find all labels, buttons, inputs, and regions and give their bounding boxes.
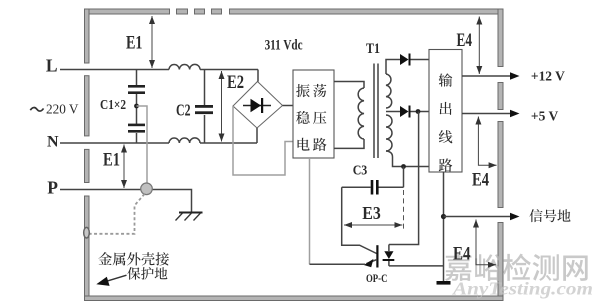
svg-text:E1: E1 bbox=[126, 32, 143, 53]
svg-text:N: N bbox=[47, 134, 59, 151]
wire box to primary top bbox=[334, 82, 364, 89]
label 保护地 bbox=[127, 267, 140, 280]
bridge rectifier diamond bbox=[233, 82, 283, 129]
shield left segment 2 bbox=[85, 76, 90, 136]
wire secondary bottom bbox=[386, 151, 429, 167]
box 输出线路 bbox=[429, 50, 462, 173]
watermark 嘉峪检测网 bbox=[445, 254, 588, 281]
svg-text:E3: E3 bbox=[362, 203, 381, 223]
wire N line bbox=[60, 142, 257, 144]
dimension arrow E4 middle bbox=[478, 117, 496, 166]
svg-text:T1: T1 bbox=[366, 41, 380, 57]
wire node to C3 bbox=[403, 167, 405, 188]
inductor choke on L bbox=[169, 64, 200, 69]
wire L line bbox=[60, 69, 258, 71]
shield bottom bar bbox=[85, 296, 504, 301]
shield left segment 3 bbox=[85, 149, 90, 182]
svg-text:311 Vdc: 311 Vdc bbox=[265, 37, 303, 53]
shield right segment 1 bbox=[498, 9, 503, 67]
svg-text:220 V: 220 V bbox=[46, 101, 79, 116]
shield right segment 3 bbox=[498, 122, 503, 208]
wire P line bbox=[60, 190, 192, 213]
wire bridge bottom bbox=[256, 128, 258, 143]
svg-text:AnyTesting.com: AnyTesting.com bbox=[452, 278, 593, 298]
capacitor C2 bbox=[204, 70, 206, 144]
svg-text:C2: C2 bbox=[176, 100, 191, 119]
wire signal ground bbox=[443, 172, 445, 281]
annotation arrow to shield bbox=[103, 275, 127, 282]
node earth circle on P bbox=[141, 183, 153, 195]
wire C1 mid to earth circle (gray) bbox=[137, 106, 148, 183]
svg-text:L: L bbox=[46, 55, 58, 75]
secondary winding lower bbox=[386, 115, 392, 151]
shield top dash 2 bbox=[195, 9, 205, 14]
capacitor C1 x2 chain bbox=[136, 70, 138, 144]
shield right segment 2 bbox=[498, 83, 503, 110]
dimension arrow E3 bbox=[344, 224, 402, 226]
wire emitter return (gray vertical from box bottom) bbox=[309, 158, 311, 264]
wire primary bottom to box bbox=[334, 139, 364, 148]
transformer core bbox=[374, 64, 378, 159]
wire photodiode cathode bbox=[389, 265, 444, 267]
svg-text:E4: E4 bbox=[453, 245, 471, 265]
shield top dash 3 bbox=[212, 9, 222, 14]
primary winding bbox=[358, 88, 364, 139]
wire secondary top bbox=[386, 60, 400, 75]
label 信号地 bbox=[529, 209, 542, 222]
wire bridge out bbox=[283, 105, 294, 107]
inductor choke on N bbox=[169, 138, 200, 143]
photodiode bbox=[388, 245, 390, 252]
shield top dash 1 bbox=[177, 9, 188, 14]
dimension arrow E1 top bbox=[151, 16, 153, 68]
svg-text:+12 V: +12 V bbox=[531, 70, 565, 85]
diode D2 bbox=[400, 106, 409, 117]
box label 振荡稳压电路 bbox=[296, 84, 310, 97]
wire photodiode anode bbox=[389, 112, 419, 245]
dimension arrow E1 lower bbox=[123, 145, 125, 189]
dimension arrow E4 bottom bbox=[476, 220, 496, 265]
capacitor C3 bbox=[342, 186, 404, 188]
shield top bar left segment bbox=[85, 9, 170, 14]
node secondary bottom bbox=[401, 164, 406, 169]
wire D1 to box bbox=[411, 59, 430, 61]
dimension arrow E2 bbox=[221, 71, 223, 142]
secondary winding upper bbox=[386, 74, 392, 108]
dashed extension line bbox=[403, 190, 405, 231]
ground symbol bbox=[179, 212, 203, 214]
emitter with arrow bbox=[367, 260, 378, 264]
svg-text:C1×2: C1×2 bbox=[100, 98, 126, 113]
shield left segment 4 bbox=[85, 196, 90, 301]
wire C3 left to collector bbox=[342, 187, 377, 253]
svg-text:P: P bbox=[47, 178, 58, 198]
shield left segment 1 bbox=[85, 9, 90, 63]
svg-text:E1: E1 bbox=[103, 149, 120, 170]
svg-text:E4: E4 bbox=[457, 31, 473, 51]
wire bridge negative (gray) bbox=[233, 106, 293, 175]
wire bridge top bbox=[257, 70, 259, 82]
wire dashed protective earth to shield bbox=[89, 194, 145, 234]
wire secondary tap bbox=[386, 111, 400, 113]
box 振荡稳压电路 bbox=[293, 70, 334, 158]
shield top bar right segment bbox=[230, 9, 504, 14]
label 金属外壳接 bbox=[98, 252, 112, 265]
bridge inner diode bbox=[243, 105, 271, 107]
svg-text:E4: E4 bbox=[472, 170, 489, 190]
dimension arrow E4 top bbox=[478, 17, 480, 75]
shield right segment 4 bbox=[498, 223, 503, 301]
shield feedthrough oval bbox=[84, 227, 90, 238]
svg-text:E2: E2 bbox=[227, 72, 244, 93]
svg-text:OP-C: OP-C bbox=[366, 273, 387, 285]
label ~220 V bbox=[30, 108, 43, 112]
wire +12V bbox=[462, 75, 511, 77]
node D2 out bbox=[416, 109, 421, 114]
wire D2 to box bbox=[411, 111, 430, 113]
wire +5V bbox=[462, 113, 511, 115]
signal ground bar bbox=[437, 281, 451, 285]
box label 输出线路 bbox=[439, 73, 453, 86]
node C1 midpoint bbox=[134, 104, 139, 109]
svg-text:C3: C3 bbox=[353, 162, 368, 177]
diode D1 bbox=[400, 54, 409, 65]
optocoupler transistor bar bbox=[376, 245, 378, 267]
svg-text:+5 V: +5 V bbox=[531, 109, 558, 124]
